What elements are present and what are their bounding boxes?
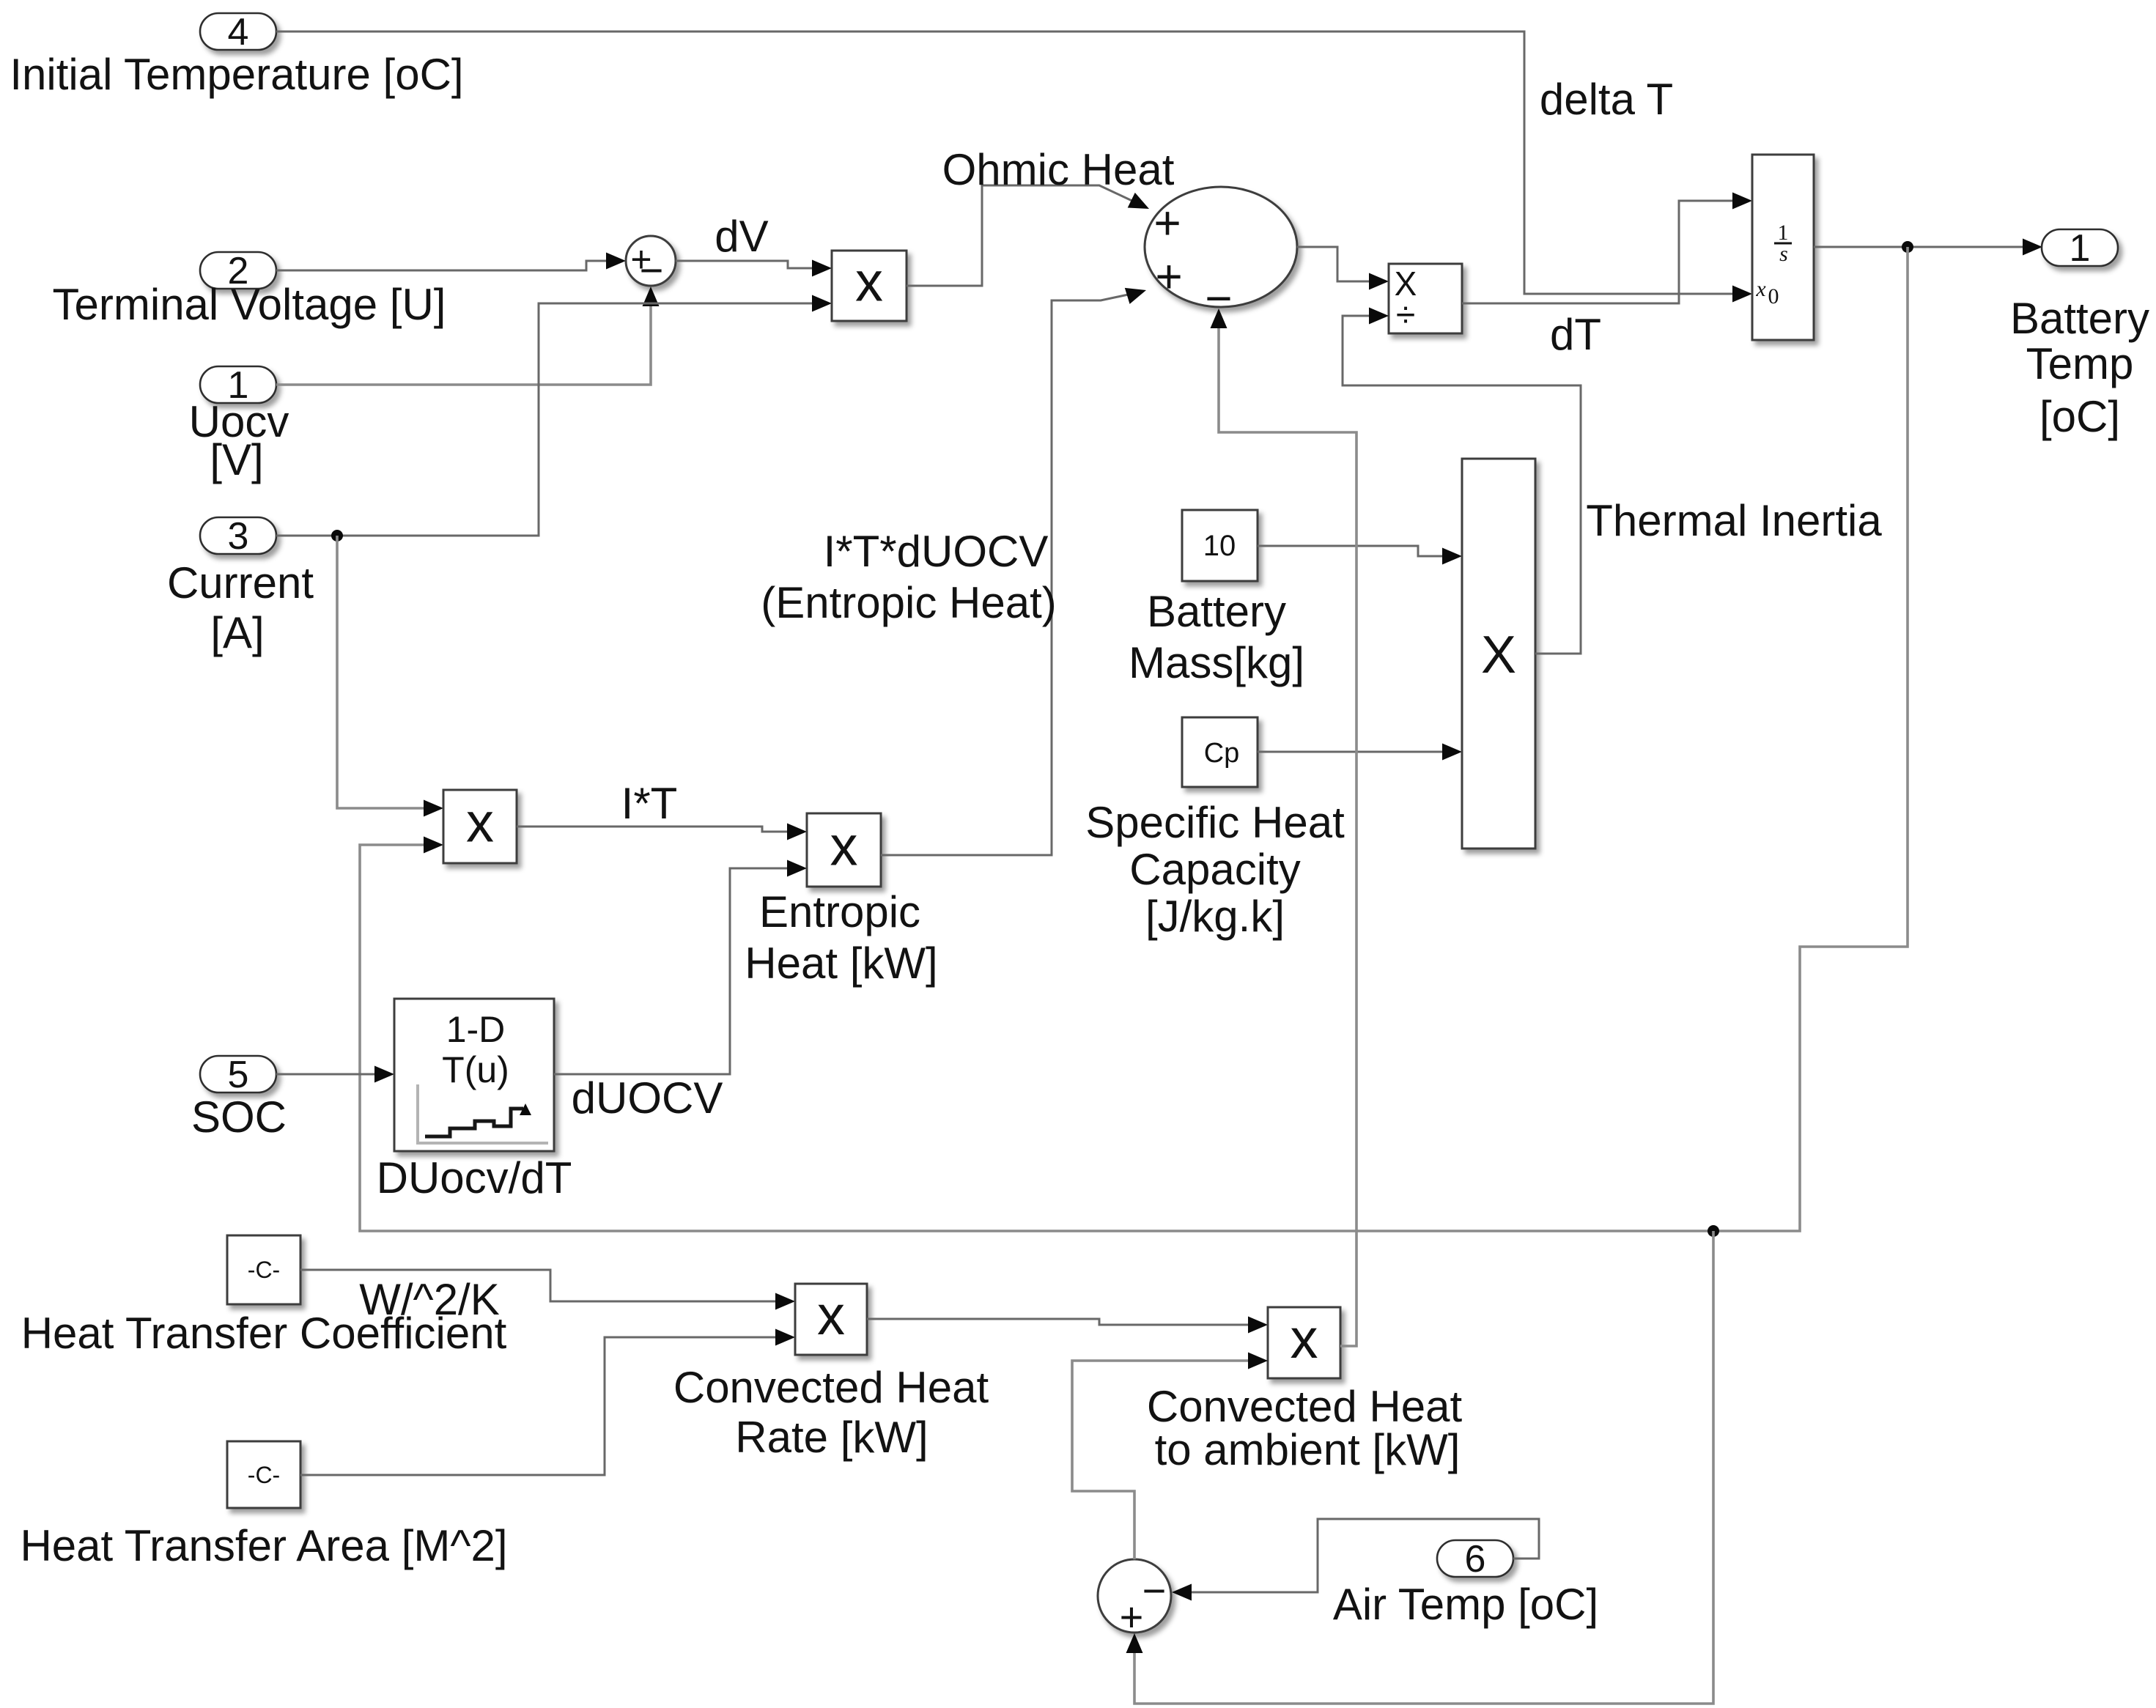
- wire feedback branch to ambient sum: [1126, 1231, 1714, 1704]
- svg-text:dV: dV: [715, 212, 768, 261]
- inport 1 (Uocv): [200, 364, 276, 407]
- wire terminal voltage to sum dV: [276, 253, 626, 271]
- svg-text:Specific Heat: Specific Heat: [1085, 798, 1345, 847]
- svg-text:Heat Transfer Area [M^2]: Heat Transfer Area [M^2]: [20, 1521, 507, 1570]
- label Heat Transfer Coefficient: [21, 1309, 507, 1358]
- product convected heat rate: [795, 1284, 867, 1355]
- label Uocv: [189, 397, 289, 446]
- label Initial Temperature [oC]: [10, 50, 463, 99]
- node battery temp junction: [1902, 241, 1913, 253]
- label [A]: [210, 608, 264, 657]
- wire convected heat rate to ambient product: [867, 1317, 1268, 1334]
- product thermal inertia (tall): [1462, 459, 1535, 849]
- label Heat Transfer Area [M^2]: [20, 1521, 507, 1570]
- inport 5 (SOC): [200, 1054, 276, 1096]
- wire entropic heat to sum ellipse: [881, 282, 1148, 855]
- wire ohmic heat to sum ellipse: [907, 185, 1153, 286]
- label [V]: [210, 435, 263, 484]
- svg-text:1: 1: [2070, 227, 2091, 270]
- svg-text:Capacity: Capacity: [1129, 845, 1300, 894]
- wire battery temp feedback to I*T: [360, 247, 1908, 1231]
- inport 6 (Air Temp): [1437, 1538, 1513, 1581]
- svg-text:delta T: delta T: [1540, 75, 1673, 124]
- inport 2 (Terminal Voltage): [200, 250, 276, 292]
- label Ohmic Heat: [942, 145, 1175, 194]
- label dUOCV: [572, 1073, 723, 1123]
- constant Heat Transfer Area -C-: [227, 1441, 300, 1508]
- svg-text:X: X: [1481, 626, 1516, 684]
- svg-text:s: s: [1779, 242, 1788, 266]
- label Battery Temp [oC]: [2010, 294, 2149, 441]
- wire battery mass to thermal inertia product: [1258, 546, 1462, 565]
- label I*T*dUOCV (Entropic Heat): [761, 527, 1056, 627]
- svg-text:x: x: [817, 1284, 845, 1347]
- svg-text:dT: dT: [1550, 310, 1601, 359]
- wire sum ellipse to divide: [1297, 247, 1389, 290]
- svg-text:Convected Heat: Convected Heat: [673, 1363, 989, 1412]
- wire SOC to lookup: [276, 1066, 394, 1083]
- svg-text:−: −: [1142, 1567, 1167, 1613]
- svg-text:Mass[kg]: Mass[kg]: [1129, 638, 1304, 687]
- label Specific Heat Capacity [J/kg.k]: [1085, 798, 1345, 941]
- label I*T: [621, 779, 678, 828]
- wire htc to convected heat rate product: [300, 1270, 795, 1310]
- svg-text:+: +: [1155, 250, 1182, 303]
- svg-text:Battery: Battery: [2010, 294, 2149, 343]
- svg-text:+: +: [1153, 196, 1181, 249]
- label Current: [167, 558, 314, 607]
- wire current branch to product I*T: [337, 536, 443, 817]
- integrator 1/s: [1752, 155, 1814, 340]
- svg-text:I*T*dUOCV: I*T*dUOCV: [824, 527, 1049, 576]
- svg-text:÷: ÷: [1396, 296, 1415, 335]
- inport 3 (Current): [200, 515, 276, 558]
- label dT: [1550, 310, 1601, 359]
- svg-text:1-D: 1-D: [446, 1009, 506, 1050]
- svg-text:[A]: [A]: [210, 608, 264, 657]
- sum ambient (circle - +): [1098, 1559, 1171, 1640]
- wire thermal inertia to divide input 2: [1343, 308, 1581, 654]
- svg-text:Thermal Inertia: Thermal Inertia: [1586, 496, 1882, 545]
- label Convected Heat Rate [kW]: [673, 1363, 989, 1462]
- svg-text:5: 5: [228, 1054, 249, 1096]
- svg-text:x: x: [1755, 277, 1766, 301]
- svg-text:Heat [kW]: Heat [kW]: [745, 939, 937, 988]
- svg-text:Initial Temperature [oC]: Initial Temperature [oC]: [10, 50, 463, 99]
- svg-text:-C-: -C-: [248, 1257, 280, 1283]
- node feedback junction to ambient sum: [1708, 1225, 1719, 1237]
- svg-text:[J/kg.k]: [J/kg.k]: [1145, 892, 1285, 941]
- wire uocv to sum dV bottom: [276, 286, 660, 385]
- svg-text:6: 6: [1465, 1538, 1486, 1581]
- svg-text:x: x: [855, 251, 883, 314]
- product I*T: [443, 790, 517, 863]
- label Air Temp [oC]: [1333, 1580, 1598, 1629]
- wire Cp to thermal inertia product: [1258, 744, 1462, 761]
- svg-text:Current: Current: [167, 558, 314, 607]
- product entropic heat: [807, 813, 881, 887]
- constant Heat Transfer Coefficient -C-: [227, 1235, 300, 1304]
- label Entropic Heat [kW]: [745, 887, 937, 988]
- svg-text:x: x: [1291, 1308, 1318, 1370]
- svg-text:Convected Heat: Convected Heat: [1147, 1382, 1463, 1431]
- label Thermal Inertia: [1586, 496, 1882, 545]
- constant Cp: [1182, 717, 1258, 787]
- lookup table DUocv/dT (1-D T(u)): [394, 999, 554, 1151]
- svg-text:[oC]: [oC]: [2039, 392, 2120, 441]
- svg-text:x: x: [466, 792, 494, 854]
- svg-text:3: 3: [228, 515, 249, 558]
- wire current to product ohmic input 2: [276, 295, 832, 536]
- svg-text:0: 0: [1768, 284, 1779, 308]
- label DUocv/dT: [377, 1153, 572, 1202]
- svg-text:4: 4: [228, 11, 249, 53]
- svg-text:SOC: SOC: [191, 1093, 287, 1142]
- svg-text:to ambient [kW]: to ambient [kW]: [1155, 1425, 1461, 1474]
- svg-text:Temp: Temp: [2026, 339, 2134, 388]
- svg-text:Terminal Voltage [U]: Terminal Voltage [U]: [53, 280, 446, 329]
- svg-text:Heat Transfer Coefficient: Heat Transfer Coefficient: [21, 1309, 507, 1358]
- wire ambient sum output to ambient product: [1072, 1353, 1268, 1560]
- label SOC: [191, 1093, 287, 1142]
- svg-text:dUOCV: dUOCV: [572, 1073, 723, 1123]
- wire I*T to product entropic: [517, 824, 807, 840]
- label dV: [715, 212, 768, 261]
- svg-text:−: −: [640, 247, 664, 293]
- svg-text:+: +: [1120, 1594, 1144, 1640]
- svg-text:T(u): T(u): [442, 1049, 509, 1090]
- label Terminal Voltage [U]: [53, 280, 446, 329]
- svg-text:I*T: I*T: [621, 779, 678, 828]
- wire delta T : inport 4 to integrator x0: [276, 32, 1752, 303]
- wire sum dV to product ohmic: [676, 260, 832, 277]
- svg-text:[V]: [V]: [210, 435, 263, 484]
- sum ellipse (+ + -): [1145, 187, 1297, 325]
- outport 1 (Battery Temp): [2042, 227, 2118, 270]
- svg-text:Rate [kW]: Rate [kW]: [735, 1413, 928, 1462]
- svg-text:Entropic: Entropic: [759, 887, 920, 936]
- constant Battery Mass 10: [1182, 510, 1258, 581]
- product convected heat to ambient: [1268, 1307, 1340, 1378]
- svg-text:DUocv/dT: DUocv/dT: [377, 1153, 572, 1202]
- svg-text:Battery: Battery: [1147, 587, 1286, 636]
- svg-text:10: 10: [1203, 530, 1236, 562]
- svg-text:Ohmic Heat: Ohmic Heat: [942, 145, 1175, 194]
- svg-text:Air Temp [oC]: Air Temp [oC]: [1333, 1580, 1598, 1629]
- divide block (X /): [1389, 264, 1462, 335]
- node current junction: [331, 530, 343, 541]
- label W/^2/K: [359, 1275, 500, 1324]
- svg-text:x: x: [830, 816, 858, 878]
- sum dV (circle +/-): [626, 236, 676, 293]
- label Battery Mass[kg]: [1129, 587, 1304, 687]
- wire dT : divide to integrator: [1462, 193, 1752, 304]
- svg-text:-C-: -C-: [248, 1462, 280, 1488]
- wire ambient product to sum ellipse minus: [1211, 308, 1357, 1346]
- wire dUOCV : lookup to product entropic: [554, 860, 807, 1075]
- label Convected Heat to ambient [kW]: [1147, 1382, 1463, 1474]
- label delta T: [1540, 75, 1673, 124]
- product U1 ohmic (dV x I): [832, 251, 907, 321]
- svg-text:(Entropic Heat): (Entropic Heat): [761, 578, 1056, 627]
- svg-text:Cp: Cp: [1204, 738, 1240, 769]
- wire hta to convected heat rate product: [300, 1329, 795, 1476]
- wire air temp to ambient sum: [1172, 1519, 1539, 1601]
- inport 4 (Initial Temperature): [200, 11, 276, 53]
- wire integrator to outport Battery Temp: [1814, 239, 2042, 256]
